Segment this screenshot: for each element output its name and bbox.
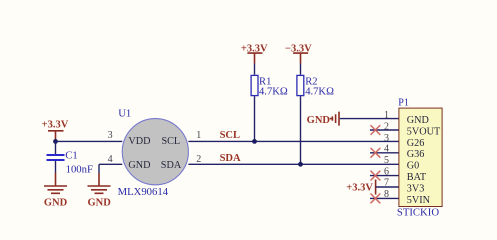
svg-text:GND: GND [407, 115, 429, 126]
wire P1 pin4 stub [370, 152, 399, 154]
no-connect X pin4 [371, 148, 381, 158]
no-connect X pin6 [371, 171, 381, 181]
svg-text:STICKIO: STICKIO [397, 206, 439, 218]
power +3.3V (P1 pin7) [346, 180, 375, 195]
svg-text:+3.3V: +3.3V [42, 120, 69, 131]
svg-text:G26: G26 [407, 138, 425, 149]
resistor R1 [251, 64, 288, 98]
svg-text:2: 2 [196, 154, 201, 165]
svg-text:GND: GND [128, 160, 150, 171]
wire P1 pin6 stub [370, 175, 399, 177]
ground (U1 pin4) [88, 186, 112, 209]
wire U1 pin4 to ground [99, 164, 122, 186]
svg-text:7: 7 [384, 178, 389, 189]
svg-text:P1: P1 [398, 97, 409, 108]
svg-text:1: 1 [384, 110, 389, 121]
svg-text:G36: G36 [407, 149, 425, 160]
svg-text:3: 3 [384, 133, 389, 144]
svg-text:8: 8 [384, 189, 389, 200]
svg-text:4.7KΩ: 4.7KΩ [305, 87, 334, 98]
svg-text:SCL: SCL [161, 136, 180, 147]
svg-text:C1: C1 [65, 150, 77, 162]
junction R2/SDA [298, 162, 303, 167]
svg-text:1: 1 [196, 130, 201, 141]
wire SCL net [188, 140, 399, 142]
svg-text:G0: G0 [407, 161, 419, 172]
wire R2 to SDA [300, 96, 302, 164]
node A junction [53, 139, 58, 144]
svg-text:4: 4 [108, 154, 113, 165]
wire P1 pin7 [376, 186, 399, 188]
svg-text:SDA: SDA [161, 160, 182, 171]
svg-text:3: 3 [108, 130, 113, 141]
wire P1 pin2 stub [370, 129, 399, 131]
svg-text:VDD: VDD [128, 136, 150, 147]
svg-text:SCL: SCL [220, 130, 240, 141]
resistor R2 [297, 64, 334, 98]
svg-text:4: 4 [384, 144, 389, 155]
capacitor C1 [47, 141, 93, 186]
wire SDA net [188, 163, 399, 165]
svg-text:SDA: SDA [220, 153, 241, 164]
svg-text:3V3: 3V3 [407, 183, 425, 194]
wire VDD [56, 140, 123, 142]
no-connect X pin8 [371, 194, 381, 204]
wire P1 pin8 stub [370, 197, 399, 199]
power +3.3V (left rail) [42, 120, 69, 142]
svg-text:GND: GND [88, 198, 112, 209]
svg-text:100nF: 100nF [66, 163, 93, 175]
junction R1/SCL [252, 139, 257, 144]
wire R1 to SCL [254, 96, 256, 141]
svg-text:MLX90614: MLX90614 [118, 186, 169, 198]
svg-text:5: 5 [384, 155, 389, 166]
svg-text:4.7KΩ: 4.7KΩ [259, 87, 288, 98]
power +3.3V (R1) [241, 44, 268, 64]
svg-text:GND: GND [44, 198, 68, 209]
svg-text:5VOUT: 5VOUT [407, 126, 441, 137]
svg-text:+3.3V: +3.3V [346, 183, 373, 194]
svg-text:BAT: BAT [407, 172, 427, 183]
svg-text:5VIN: 5VIN [407, 195, 431, 206]
wire P1 pin1 [340, 118, 399, 120]
svg-text:U1: U1 [118, 107, 131, 119]
ground (C1) [44, 186, 68, 209]
ground (P1 pin1, sideways) [307, 112, 339, 127]
svg-text:GND: GND [307, 115, 331, 126]
op-amp U1 MLX90614 body [118, 107, 189, 198]
power +3.3V (R2) [285, 44, 312, 64]
no-connect X pin2 [371, 125, 381, 135]
svg-text:2: 2 [384, 121, 389, 132]
connector P1 body [397, 97, 442, 218]
svg-text:6: 6 [384, 166, 389, 177]
